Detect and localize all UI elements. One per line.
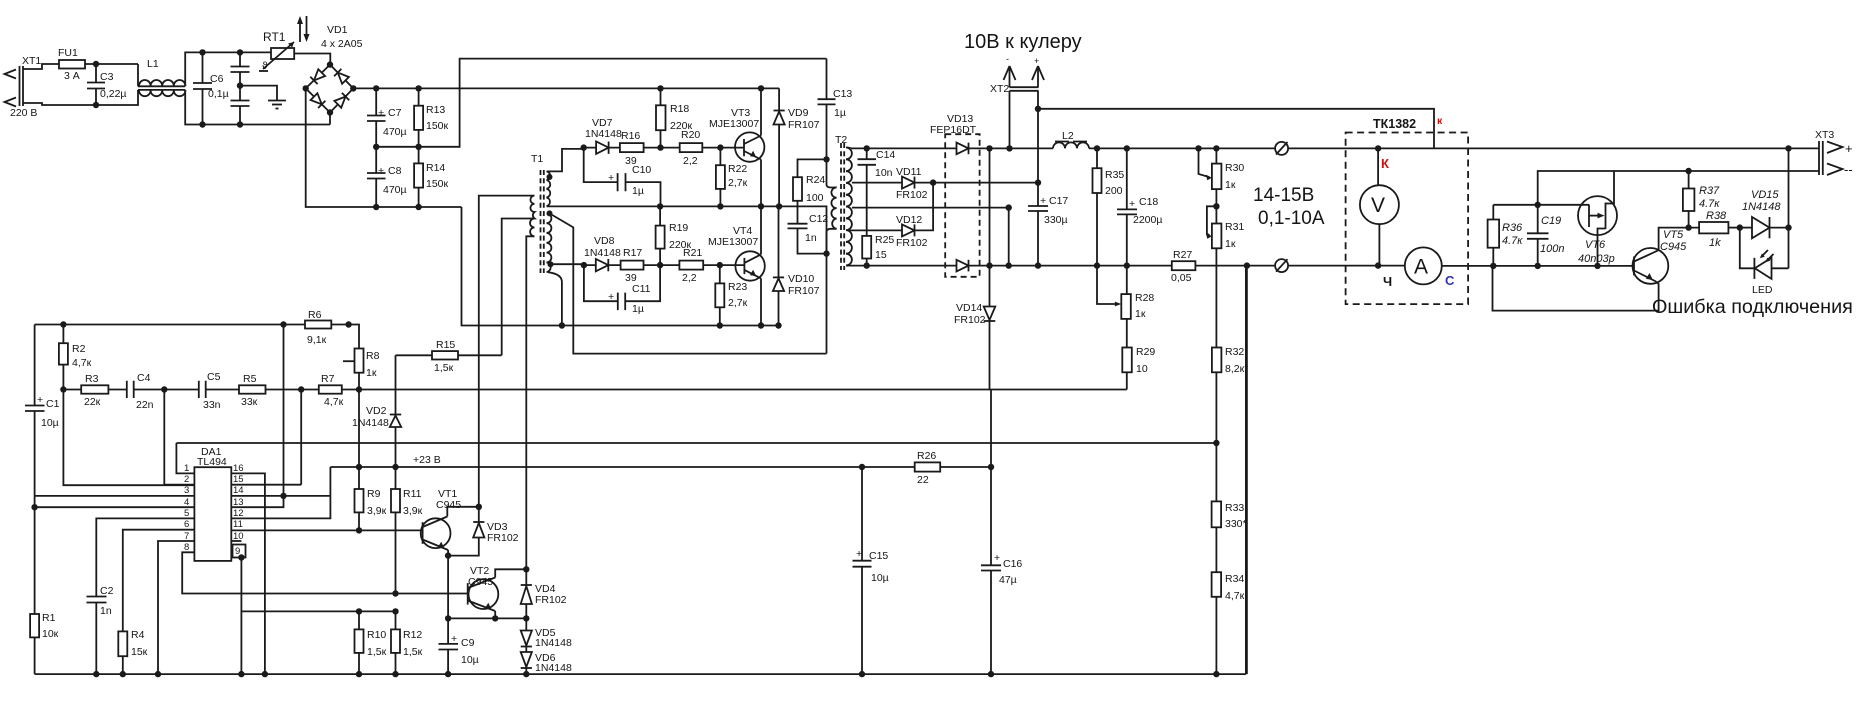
resistor R1: [30, 612, 59, 674]
node R8 top: [345, 321, 351, 327]
svg-text:200: 200: [1105, 185, 1123, 197]
wire S1 top to VD7 node: [547, 149, 584, 172]
svg-text:XT2: XT2: [990, 83, 1009, 95]
node VT1 emitter: [445, 552, 451, 558]
svg-text:R37: R37: [1699, 185, 1720, 197]
node gnd pin9: [238, 671, 244, 677]
svg-text:C7: C7: [388, 107, 402, 119]
ground: [268, 101, 286, 109]
svg-text:R29: R29: [1136, 346, 1155, 358]
svg-text:10µ: 10µ: [461, 654, 479, 666]
svg-text:R10: R10: [367, 629, 386, 641]
node C18 top: [1124, 145, 1130, 151]
node R11 bottom VT2 base: [392, 590, 398, 596]
capacitor C4: [127, 372, 165, 411]
node emitter C9: [445, 615, 451, 621]
capacitor C14: [858, 148, 896, 236]
wire L1 top to top rail: [185, 52, 271, 86]
node pin9: [238, 554, 244, 560]
resistor R27 shunt: [1171, 249, 1195, 284]
svg-text:VD8: VD8: [594, 235, 615, 247]
svg-text:100n: 100n: [1540, 243, 1564, 255]
resistor R12: [391, 611, 423, 674]
svg-text:8,2к*: 8,2к*: [1225, 363, 1248, 375]
pin 12: [231, 467, 330, 519]
node R8 bottom: [356, 386, 362, 392]
bridge VD1: [303, 24, 363, 116]
svg-text:R15: R15: [436, 339, 455, 351]
wire S1 bottom emitter line: [547, 206, 827, 253]
wire A meter out: [1442, 265, 1633, 267]
wire S2 top link to T2 bottom node: [550, 213, 827, 353]
node sense bus R32: [1213, 440, 1219, 446]
capacitor filter lower (unlabeled): [231, 101, 250, 125]
node C8 bottom: [373, 204, 379, 210]
node VT3 base: [717, 144, 723, 150]
resistor R25: [862, 234, 894, 266]
svg-text:R13: R13: [426, 104, 445, 116]
transformer T1 secondary S1: [547, 171, 553, 206]
svg-text:R9: R9: [367, 488, 381, 500]
wire out minus down: [1246, 266, 1248, 674]
node gate C19 top: [1535, 202, 1541, 208]
resistor R8: [343, 325, 380, 390]
wire cooler + line: [933, 182, 1038, 184]
resistor R15: [396, 339, 502, 374]
dashed box VD13 FEP16DT: [930, 113, 980, 277]
wire +23V rail: [330, 466, 914, 468]
wire k-line to TK1382: [1038, 109, 1434, 148]
wire XT1 bottom row: [23, 103, 96, 105]
pin 8: [182, 542, 468, 594]
resistor R28 trimmer: [1097, 266, 1154, 320]
wire pin15 column: [300, 390, 302, 485]
svg-text:V: V: [1371, 194, 1385, 217]
resistor R18: [656, 88, 693, 147]
capacitor C15: [853, 467, 889, 674]
svg-text:R4: R4: [131, 629, 145, 641]
pin 10: [231, 531, 243, 542]
node R9 top: [356, 464, 362, 470]
svg-text:C14: C14: [876, 149, 895, 161]
svg-text:R11: R11: [403, 488, 422, 500]
wire top rail into L1: [137, 64, 139, 86]
transformer T2 core: [835, 134, 847, 270]
svg-text:1к: 1к: [1225, 238, 1236, 250]
node gnd pin7: [155, 671, 161, 677]
svg-text:100: 100: [806, 192, 824, 204]
wire R38 node down to LED: [1740, 228, 1755, 269]
svg-text:R31: R31: [1225, 221, 1244, 233]
svg-text:VD11: VD11: [896, 166, 922, 178]
svg-text:470µ: 470µ: [383, 126, 407, 138]
capacitor C19: [1527, 205, 1564, 266]
svg-text:R36: R36: [1502, 222, 1523, 234]
inductor L1: [138, 58, 185, 96]
resistor R5: [239, 373, 319, 408]
node R35 top: [1094, 145, 1100, 151]
svg-text:XT1: XT1: [22, 55, 41, 67]
node rectifier out bottom: [986, 262, 992, 268]
svg-text:33n: 33n: [203, 399, 221, 411]
svg-text:К: К: [1381, 156, 1389, 171]
svg-text:R27: R27: [1173, 249, 1192, 261]
svg-text:С945: С945: [1660, 241, 1687, 253]
svg-text:330µ: 330µ: [1044, 214, 1068, 226]
pin 4: [35, 497, 195, 508]
svg-text:10В к кулеру: 10В к кулеру: [964, 31, 1082, 53]
wire RT1 to bridge top: [294, 54, 330, 65]
svg-text:1N4148: 1N4148: [584, 247, 621, 259]
node C14 top: [864, 145, 870, 151]
pin 5: [96, 508, 194, 597]
svg-text:VD10: VD10: [788, 273, 814, 285]
svg-text:R2: R2: [72, 343, 86, 355]
svg-text:150к: 150к: [426, 120, 449, 132]
node C7-C8 mid: [373, 144, 379, 150]
transistor VT2 C945: [468, 565, 527, 618]
terminal out plus: [1275, 142, 1288, 155]
resistor R31 trimmer: [1206, 189, 1245, 250]
svg-text:C16: C16: [1003, 558, 1022, 570]
node gnd C15: [859, 671, 865, 677]
svg-text:1к: 1к: [1225, 179, 1236, 191]
capacitor C8: [367, 147, 407, 207]
wire bridge right to +rail: [353, 87, 779, 89]
diode VD3 FR102: [448, 507, 519, 556]
wire T2 center tap down: [852, 208, 1009, 266]
svg-text:ТК1382: ТК1382: [1373, 117, 1416, 131]
svg-text:22n: 22n: [136, 399, 154, 411]
wire T2 top terminal row: [851, 147, 957, 149]
resistor R22: [716, 148, 748, 207]
svg-text:R8: R8: [366, 350, 380, 362]
svg-text:14: 14: [233, 485, 244, 496]
svg-text:R26: R26: [917, 450, 936, 462]
adjust arrows near RT1: [297, 16, 310, 42]
svg-text:R6: R6: [308, 309, 322, 321]
svg-text:1N4148: 1N4148: [1742, 201, 1781, 213]
capacitor filter upper (unlabeled): [231, 52, 250, 100]
svg-text:Ч: Ч: [1383, 274, 1392, 289]
svg-text:2,2: 2,2: [682, 272, 697, 284]
svg-text:33к: 33к: [241, 396, 258, 408]
node VT3 collector: [758, 85, 764, 91]
node R11 top VD2 bottom: [392, 464, 398, 470]
svg-text:R23: R23: [728, 281, 747, 293]
node filter cap top: [237, 49, 243, 55]
node R25 bottom: [864, 262, 870, 268]
node C17 bottom: [1035, 262, 1041, 268]
wire bottom rail into L1: [96, 90, 138, 105]
node pin14: [280, 493, 286, 499]
node gnd pin16: [262, 671, 268, 677]
transformer T2 secondary: [846, 148, 852, 266]
node gnd VD6: [523, 671, 529, 677]
node VT4 emitter: [758, 322, 764, 328]
resistor R14: [414, 147, 448, 207]
diode VD11 FR102: [896, 166, 933, 201]
svg-text:R32: R32: [1225, 346, 1244, 358]
wire XT2 minus down: [1009, 91, 1011, 149]
svg-text:4,7к: 4,7к: [324, 396, 344, 408]
svg-text:+: +: [1034, 56, 1039, 66]
wire VD14 column: [990, 390, 992, 468]
wire pin14 to +23: [284, 495, 331, 497]
node R2 top: [60, 321, 66, 327]
svg-text:L1: L1: [147, 58, 159, 70]
capacitor C17: [1028, 195, 1068, 266]
svg-text:15к: 15к: [131, 646, 148, 658]
svg-text:1,5к: 1,5к: [367, 646, 387, 658]
svg-text:RT1: RT1: [263, 30, 286, 44]
node R30 top: [1213, 145, 1219, 151]
node VT2 collector: [523, 566, 529, 572]
diode VD4 FR102: [521, 569, 567, 618]
svg-text:Ошибка подключения: Ошибка подключения: [1652, 296, 1853, 318]
svg-text:9,1к: 9,1к: [307, 334, 327, 346]
node R17-R19-R21: [657, 262, 663, 268]
svg-text:4,7к: 4,7к: [72, 357, 92, 369]
svg-text:1N4148: 1N4148: [535, 637, 572, 649]
wire S2 tap to VD8 node: [551, 263, 584, 265]
wire rectifier out link: [989, 148, 991, 265]
node cooler plus C17: [1035, 179, 1041, 185]
node R36 bottom: [1490, 263, 1496, 269]
wire T2 bottom terminal row: [851, 265, 957, 267]
svg-text:C11: C11: [632, 283, 651, 295]
diode VD9 FR107: [774, 88, 820, 206]
svg-text:VD15: VD15: [1751, 189, 1779, 201]
svg-text:1к: 1к: [1135, 308, 1146, 320]
svg-text:4 x 2A05: 4 x 2A05: [321, 38, 363, 50]
svg-text:10: 10: [1136, 363, 1148, 375]
svg-text:330*: 330*: [1225, 518, 1247, 530]
svg-text:22: 22: [917, 474, 929, 486]
svg-text:2200µ: 2200µ: [1133, 214, 1162, 226]
svg-text:0,1µ: 0,1µ: [208, 88, 229, 100]
node A meter left: [1375, 262, 1381, 268]
svg-text:C17: C17: [1049, 195, 1068, 207]
node R30-R31: [1213, 203, 1219, 209]
connector XT1: [5, 55, 42, 119]
svg-text:C8: C8: [388, 165, 402, 177]
wire out plus to XT3: [1288, 147, 1819, 149]
node filter bottom: [237, 121, 243, 127]
svg-text:VD14: VD14: [956, 302, 982, 314]
resistor R13: [414, 88, 448, 146]
svg-text:R18: R18: [670, 103, 689, 115]
capacitor C3: [87, 64, 127, 105]
svg-text:R33: R33: [1225, 502, 1244, 514]
node k-line tap: [1035, 106, 1041, 112]
svg-text:2: 2: [184, 474, 189, 485]
diode VD2 1N4148: [352, 355, 401, 467]
node R12 row: [392, 608, 398, 614]
node R18 top: [657, 85, 663, 91]
wire bridge left down to gnd rail: [306, 88, 462, 207]
capacitor C16: [981, 467, 1022, 674]
svg-text:1µ: 1µ: [834, 107, 846, 119]
wire sense bus pin1: [176, 442, 1216, 444]
svg-text:С19: С19: [1541, 215, 1561, 227]
svg-text:FR102: FR102: [896, 237, 928, 249]
transistor VT5 C945: [1493, 228, 1700, 311]
svg-text:0,05: 0,05: [1171, 272, 1192, 284]
wire FU1 to C3 node: [85, 63, 138, 65]
svg-text:C945: C945: [468, 576, 493, 588]
svg-text:1N4148: 1N4148: [585, 128, 622, 140]
transformer T1 primary: [530, 196, 535, 237]
transistor VT6 40n03p: [1578, 171, 1617, 266]
wire R8-R9 column: [358, 390, 360, 468]
svg-text:3,9к: 3,9к: [367, 505, 387, 517]
svg-text:C18: C18: [1139, 196, 1158, 208]
svg-text:+: +: [608, 172, 614, 184]
svg-text:VT5: VT5: [1663, 229, 1684, 241]
transformer T1 secondary S2: [547, 210, 554, 272]
node R38 right: [1737, 224, 1743, 230]
svg-text:R35: R35: [1105, 169, 1124, 181]
terminal out minus: [1275, 259, 1288, 272]
svg-text:1,5к: 1,5к: [403, 646, 423, 658]
resistor R9: [355, 467, 387, 530]
capacitor C18: [1117, 148, 1162, 265]
node R16-R18-R20: [657, 144, 663, 150]
node C15 top: [859, 464, 865, 470]
node C18 bottom: [1124, 262, 1130, 268]
node filter mid: [237, 82, 243, 88]
svg-text:1: 1: [184, 463, 189, 474]
svg-text:L2: L2: [1062, 130, 1074, 142]
resistor R23: [715, 265, 747, 325]
svg-text:15: 15: [233, 474, 244, 485]
svg-text:VD2: VD2: [366, 405, 387, 417]
svg-text:TL494: TL494: [197, 456, 227, 468]
node C6 bottom: [199, 121, 205, 127]
svg-text:3,9к: 3,9к: [403, 505, 423, 517]
svg-text:R24: R24: [806, 174, 825, 186]
svg-text:1n: 1n: [100, 605, 112, 617]
svg-text:VT6: VT6: [1585, 239, 1606, 251]
svg-text:15: 15: [875, 249, 887, 261]
svg-text:T1: T1: [531, 153, 543, 165]
svg-text:+: +: [608, 291, 614, 303]
node VT4 base: [717, 262, 723, 268]
svg-text:FU1: FU1: [58, 47, 78, 59]
resistor R35: [1093, 148, 1125, 265]
node T2 top / R24: [823, 156, 829, 162]
svg-text:3: 3: [184, 485, 189, 496]
svg-text:C10: C10: [632, 164, 651, 176]
node R14 bottom: [415, 204, 421, 210]
svg-text:+: +: [378, 107, 384, 119]
svg-text:R38: R38: [1706, 210, 1727, 222]
svg-text:C6: C6: [210, 73, 224, 85]
svg-text:-: -: [1006, 54, 1009, 64]
node VD8 anode: [581, 262, 587, 268]
connector XT3: [1815, 129, 1853, 177]
svg-text:LED: LED: [1752, 284, 1773, 296]
resistor R20: [661, 129, 721, 167]
wire mid rail to midpoint riser: [376, 59, 826, 147]
pin 6: [123, 519, 195, 631]
node gnd C16: [988, 671, 994, 677]
capacitor C10: [584, 148, 661, 207]
svg-text:C1: C1: [46, 398, 60, 410]
wire L1 bottom to bottom rail: [185, 90, 330, 125]
diode VD10 FR107: [773, 206, 820, 325]
capacitor C11: [584, 265, 660, 315]
node C4-C5 pin2 tap: [161, 386, 167, 392]
svg-text:FR107: FR107: [788, 119, 820, 131]
svg-text:А: А: [1414, 256, 1428, 279]
resistor R34: [1212, 572, 1245, 674]
node gnd R34: [1213, 671, 1219, 677]
connector XT2: [990, 54, 1044, 95]
svg-text:1,5к: 1,5к: [434, 362, 454, 374]
svg-text:10µ: 10µ: [871, 572, 889, 584]
node C6 top: [199, 49, 205, 55]
node S2 bottom rail: [559, 322, 565, 328]
svg-text:MJE13007: MJE13007: [709, 118, 759, 130]
diode VD8 1N4148: [584, 235, 621, 271]
svg-text:R34: R34: [1225, 573, 1244, 585]
node R13-R14 mid: [415, 144, 421, 150]
node rectifier out top: [986, 145, 992, 151]
wire R31 to R32: [1215, 248, 1217, 347]
pin 9: [233, 545, 246, 675]
svg-text:10к: 10к: [42, 628, 59, 640]
svg-text:R5: R5: [243, 373, 257, 385]
svg-text:R7: R7: [321, 373, 335, 385]
wire main gnd rail: [35, 673, 1246, 675]
svg-text:R17: R17: [623, 247, 642, 259]
svg-text:C4: C4: [137, 372, 151, 384]
node VD7 anode: [581, 144, 587, 150]
svg-text:R20: R20: [681, 129, 700, 141]
wire R36 top to gate node: [1493, 204, 1589, 206]
wire L2 to out plus rail: [1089, 147, 1275, 149]
resistor R29: [1122, 319, 1155, 390]
wire pin14 column: [283, 325, 285, 496]
resistor R3: [63, 373, 126, 408]
capacitor C7: [367, 88, 407, 146]
resistor R19: [656, 206, 692, 265]
svg-text:4.7к: 4.7к: [1699, 198, 1720, 210]
node center tap bottom: [1006, 262, 1012, 268]
node R37 bottom R38 left: [1685, 224, 1691, 230]
resistor R21: [660, 247, 720, 284]
diode VD7 1N4148: [584, 117, 622, 154]
node V meter tap: [1375, 145, 1381, 151]
node T2 bottom: [823, 250, 829, 256]
node XT2 minus: [1006, 145, 1012, 151]
node gnd R4: [120, 671, 126, 677]
resistor R2: [59, 325, 92, 390]
wire T2 tap2 to VD12: [850, 229, 903, 231]
svg-text:C2: C2: [100, 585, 114, 597]
svg-text:R22: R22: [728, 163, 747, 175]
svg-text:R25: R25: [875, 234, 894, 246]
wire T1 primary bottom drop: [526, 236, 534, 569]
transistor VT4 MJE13007: [708, 206, 765, 325]
svg-text:+: +: [1845, 141, 1853, 156]
resistor R7: [319, 373, 1127, 408]
svg-text:+: +: [451, 633, 457, 645]
svg-text:R19: R19: [669, 222, 688, 234]
svg-text:0,22µ: 0,22µ: [100, 88, 127, 100]
